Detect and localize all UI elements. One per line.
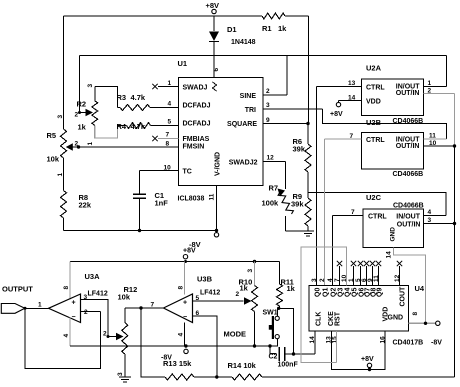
svg-text:10: 10 <box>429 140 437 147</box>
wire output to U3A <box>25 307 49 309</box>
potentiometer R2 1k <box>94 87 96 101</box>
svg-text:R7: R7 <box>269 184 279 193</box>
svg-text:14: 14 <box>386 251 393 259</box>
svg-text:Q2: Q2 <box>331 288 338 297</box>
svg-text:SWADJ: SWADJ <box>183 85 208 92</box>
svg-text:2: 2 <box>103 331 107 338</box>
svg-text:IN/OUT: IN/OUT <box>396 214 420 221</box>
svg-text:2: 2 <box>428 88 432 95</box>
U4 Q9 no-connect stub <box>378 266 380 286</box>
svg-text:CLK: CLK <box>316 312 323 326</box>
resistor R10 1k pot <box>254 262 256 286</box>
wire CKE to +8V/VDD <box>332 331 386 370</box>
wire SWADJ2 to R7 <box>263 161 286 163</box>
svg-text:7: 7 <box>350 133 354 140</box>
power +8V terminal <box>212 9 216 13</box>
svg-text:14: 14 <box>309 336 316 344</box>
svg-text:Q1: Q1 <box>323 288 330 297</box>
resistor R8 22k <box>61 191 67 219</box>
U4 COUT pin12 no-connect <box>399 266 401 286</box>
svg-text:15: 15 <box>332 336 339 344</box>
svg-text:1: 1 <box>428 80 432 87</box>
svg-text:SWADJ2: SWADJ2 <box>229 160 258 167</box>
svg-text:39k: 39k <box>291 200 304 209</box>
svg-text:CD4017B: CD4017B <box>393 340 424 347</box>
wire U2A ctrl from Q0 <box>317 86 362 88</box>
svg-text:2: 2 <box>75 112 79 119</box>
wire RST from Q4 (gray) <box>336 331 338 363</box>
wire U2B pin11 in (gray) <box>424 138 447 140</box>
U1 pin10 TC wire <box>140 170 179 172</box>
wire top rail right <box>285 15 309 17</box>
node rail from R2 wiper to U2A pin1 <box>80 55 447 57</box>
resistor R14 10k <box>217 376 232 378</box>
svg-text:CTRL: CTRL <box>366 85 385 92</box>
svg-text:3: 3 <box>87 84 94 88</box>
svg-text:LF412: LF412 <box>200 290 220 297</box>
svg-text:11: 11 <box>209 193 216 200</box>
U4 Q8 no-connect stub <box>372 266 374 286</box>
wire left rail lower <box>63 158 65 191</box>
U4 Q7 no-connect stub <box>366 266 368 286</box>
wire U3A feedback loop <box>25 308 101 368</box>
svg-text:10: 10 <box>164 165 172 172</box>
svg-text:MODE: MODE <box>224 330 247 339</box>
wire output bus lower <box>454 224 456 378</box>
svg-text:1nF: 1nF <box>155 199 169 208</box>
resistor R11 1k <box>279 262 281 285</box>
svg-text:CTRL: CTRL <box>366 137 385 144</box>
power -8V terminal U1 pin11 <box>216 186 218 233</box>
svg-text:R1: R1 <box>262 24 272 33</box>
svg-text:8: 8 <box>412 312 419 316</box>
svg-text:4.7k: 4.7k <box>131 93 146 102</box>
svg-text:U3B: U3B <box>197 275 213 284</box>
wire left rail upper <box>63 16 65 129</box>
U4 Q3 no-connect stub <box>339 266 341 286</box>
svg-text:U3A: U3A <box>85 272 101 281</box>
svg-text:4: 4 <box>168 101 172 108</box>
potentiometer R5 10k <box>61 129 67 158</box>
wire U3A pin8 riser <box>69 262 71 300</box>
wire R3 to U1 pin4 <box>118 107 121 109</box>
svg-text:3: 3 <box>428 217 432 224</box>
svg-text:2: 2 <box>266 88 270 95</box>
svg-text:14: 14 <box>348 95 356 102</box>
op-amp U3B LF412 triangle <box>164 294 193 323</box>
svg-text:12: 12 <box>394 274 401 282</box>
potentiometer R2 1k wiper arrow <box>86 109 94 117</box>
wire R1 drop to square node <box>308 16 310 124</box>
wire R5 wiper to FMSIN <box>73 146 179 148</box>
svg-text:11: 11 <box>429 133 436 140</box>
wire output bus mid <box>454 146 456 224</box>
wire R11 node to C2/CLK <box>279 308 294 354</box>
svg-text:R4: R4 <box>117 122 127 131</box>
wire U3A pin2 inverting <box>81 311 101 313</box>
svg-text:LF412: LF412 <box>88 291 108 298</box>
wire U2B ctrl from Q1 (gray) <box>325 138 362 140</box>
wire bottom bus <box>262 376 455 378</box>
svg-text:-8V: -8V <box>431 340 442 347</box>
svg-text:GND: GND <box>388 315 404 322</box>
wire mode rail corner to C2 <box>268 344 271 347</box>
svg-text:3: 3 <box>247 269 254 273</box>
svg-text:VDD: VDD <box>366 99 381 106</box>
svg-text:FMBIAS: FMBIAS <box>183 136 210 143</box>
svg-text:3: 3 <box>84 294 88 301</box>
wire U3B pin6 inverting <box>193 316 217 377</box>
svg-text:CTRL: CTRL <box>368 214 387 221</box>
svg-text:4: 4 <box>327 278 334 282</box>
wire U2B pin10 out <box>424 145 455 147</box>
svg-text:2: 2 <box>84 309 88 316</box>
U1 sweep glyph <box>213 82 217 91</box>
svg-text:SQUARE: SQUARE <box>227 121 257 128</box>
svg-text:+: + <box>183 300 187 307</box>
svg-text:OUT/IN: OUT/IN <box>397 222 421 229</box>
svg-text:CD4066B: CD4066B <box>393 203 424 210</box>
potentiometer R7 100k <box>278 192 293 214</box>
power +8V terminal U4 <box>367 363 371 367</box>
resistor R6 39k <box>307 124 309 145</box>
wire divider node to U2C in <box>308 193 446 216</box>
svg-text:OUT/IN: OUT/IN <box>396 90 420 97</box>
svg-text:R3: R3 <box>117 93 127 102</box>
svg-text:1: 1 <box>57 173 64 177</box>
svg-text:R14 10k: R14 10k <box>228 361 257 370</box>
wire U3B pin5 to R10 wiper <box>193 300 244 302</box>
wire U2C pin14 gnd to -8V (gray) <box>394 248 426 324</box>
svg-text:22k: 22k <box>79 201 92 210</box>
op-amp U3A LF412 triangle <box>49 294 81 323</box>
resistor R3 4.7k <box>120 105 150 111</box>
svg-text:ICL8038: ICL8038 <box>178 196 205 203</box>
svg-text:U2B: U2B <box>366 118 382 127</box>
capacitor C2 100nF <box>278 347 280 361</box>
svg-text:6: 6 <box>213 68 220 72</box>
svg-text:3: 3 <box>57 115 64 119</box>
svg-text:5: 5 <box>196 295 200 302</box>
svg-text:Q4: Q4 <box>345 288 352 297</box>
wire U2A pin1 to sine rail <box>424 86 447 88</box>
wire R13 drop <box>141 308 165 377</box>
svg-text:13: 13 <box>348 80 356 87</box>
U4 Q6 no-connect stub <box>360 266 362 286</box>
svg-text:1: 1 <box>87 142 94 146</box>
resistor R13 15k <box>165 374 194 380</box>
wire U3B pin4 drop (gray) <box>184 323 186 347</box>
svg-text:SW1: SW1 <box>263 310 278 317</box>
svg-text:U2C: U2C <box>366 193 382 202</box>
svg-text:V-/GND: V-/GND <box>215 152 222 176</box>
wire TRI out <box>263 108 323 110</box>
svg-text:+: + <box>72 300 76 307</box>
svg-text:+8V: +8V <box>330 111 343 118</box>
resistor R4 4.7k <box>127 123 151 129</box>
svg-text:7: 7 <box>166 132 170 139</box>
wire U3B pin8 riser (gray) <box>184 262 186 295</box>
wire C2 to CLK <box>285 353 316 355</box>
svg-text:1: 1 <box>168 80 172 87</box>
svg-text:COUT: COUT <box>400 286 407 307</box>
ground (R12) <box>119 376 131 378</box>
svg-text:6: 6 <box>196 310 200 317</box>
svg-text:4: 4 <box>177 333 184 337</box>
wire U3A pin3 to R12 wiper <box>81 300 117 337</box>
svg-text:3: 3 <box>266 102 270 109</box>
svg-text:CD4066B: CD4066B <box>393 118 424 125</box>
svg-text:4: 4 <box>428 209 432 216</box>
U1 pin7 FMBIAS no-connect (gray) <box>158 138 179 140</box>
svg-text:10k: 10k <box>118 293 131 302</box>
wire R4 to U1 pin5 <box>118 125 127 127</box>
wire SQUARE out <box>263 123 308 125</box>
svg-text:GND: GND <box>390 227 397 242</box>
svg-text:3: 3 <box>311 278 318 282</box>
wire R2 wiper riser <box>79 56 81 113</box>
wire U2C pin3 out <box>424 223 455 225</box>
svg-text:OUTPUT: OUTPUT <box>2 285 33 294</box>
svg-text:+8V: +8V <box>183 248 196 255</box>
svg-text:R13 15k: R13 15k <box>163 359 192 368</box>
switch IC U2A CD4066B box <box>362 79 424 116</box>
wire top rail left <box>64 15 263 17</box>
svg-text:7: 7 <box>151 302 155 309</box>
svg-text:C2: C2 <box>269 354 278 361</box>
potentiometer R12 10k <box>116 333 124 341</box>
svg-text:Q3: Q3 <box>338 288 345 297</box>
svg-text:1k: 1k <box>240 284 249 293</box>
svg-text:+8V: +8V <box>206 1 220 10</box>
resistor R1 1k <box>262 13 285 19</box>
U1 pin1 SWADJ no-connect <box>158 86 179 88</box>
wire R2 top to R3 <box>95 87 118 108</box>
capacitor C1 1nF <box>139 171 141 194</box>
svg-text:3: 3 <box>117 372 124 376</box>
svg-text:D1: D1 <box>227 25 237 34</box>
resistor R9 39k <box>305 198 311 226</box>
svg-text:U1: U1 <box>178 59 188 68</box>
svg-text:FMSIN: FMSIN <box>183 144 205 151</box>
svg-text:DCFADJ: DCFADJ <box>183 121 211 128</box>
svg-text:1k: 1k <box>78 123 87 132</box>
svg-text:R2: R2 <box>77 100 87 109</box>
svg-text:Q0: Q0 <box>315 288 322 297</box>
svg-text:4: 4 <box>63 334 70 338</box>
counter IC U4 CD4017B box <box>309 286 409 332</box>
svg-text:4.7k: 4.7k <box>131 122 146 131</box>
wire opamp +8V rail <box>70 261 280 263</box>
svg-text:TC: TC <box>183 169 192 176</box>
svg-text:CD4066B: CD4066B <box>393 171 424 178</box>
svg-text:RST: RST <box>335 311 342 326</box>
svg-text:+8V: +8V <box>361 356 374 363</box>
svg-text:5: 5 <box>168 119 172 126</box>
U4 Q5 no-connect stub <box>353 266 355 286</box>
svg-text:7: 7 <box>351 209 355 216</box>
power +8V terminal U2A VDD <box>336 102 340 106</box>
power +8V terminal opamps <box>183 255 187 259</box>
wire U3B pin7 to R12 top <box>125 307 164 309</box>
power -8V terminal U3B <box>184 344 187 347</box>
svg-text:39k: 39k <box>293 145 306 154</box>
svg-text:OUT/IN: OUT/IN <box>396 143 420 150</box>
svg-text:TRI: TRI <box>245 107 256 114</box>
svg-text:8: 8 <box>63 286 70 290</box>
svg-text:100k: 100k <box>262 199 280 208</box>
svg-text:DCFADJ: DCFADJ <box>183 103 211 110</box>
diode D1 1N4148 <box>213 16 215 31</box>
svg-text:−: − <box>183 314 187 321</box>
wire SINE out <box>263 94 287 96</box>
svg-text:1: 1 <box>38 302 42 309</box>
wire -8V mode rail <box>70 345 278 347</box>
wire U3A pin4 drop <box>69 318 71 347</box>
wire output bus right (gray) <box>454 94 456 147</box>
switch IC U2C CD4066B box <box>363 209 424 248</box>
svg-text:U4: U4 <box>415 284 425 293</box>
svg-text:Q9: Q9 <box>377 288 384 297</box>
svg-text:U2A: U2A <box>366 64 382 73</box>
connector OUTPUT <box>1 304 25 314</box>
svg-text:1k: 1k <box>287 284 296 293</box>
svg-text:−: − <box>72 314 76 321</box>
svg-text:8: 8 <box>166 141 170 148</box>
svg-text:2: 2 <box>319 278 326 282</box>
svg-text:Q5: Q5 <box>352 288 359 297</box>
svg-text:10k: 10k <box>47 155 60 164</box>
wire U2C ctrl from Q2 <box>333 215 364 217</box>
switch IC U2B CD4066B box <box>362 133 424 170</box>
svg-text:12: 12 <box>267 155 275 162</box>
svg-text:R5: R5 <box>47 131 57 140</box>
svg-text:1k: 1k <box>278 24 287 33</box>
op IC U1 ICL8038 box <box>179 78 264 186</box>
wire U2C pin4 in <box>424 215 447 217</box>
svg-text:SINE: SINE <box>240 93 257 100</box>
svg-text:1N4148: 1N4148 <box>231 39 256 46</box>
power -8V terminal U4 <box>436 321 440 325</box>
wire R2 bottom link (gray) <box>95 125 118 138</box>
svg-text:8: 8 <box>177 286 184 290</box>
wire Q4 to RST loop (gray) <box>301 247 347 363</box>
wire bottom rail of oscillator section <box>64 230 217 232</box>
ground (oscillator divider) <box>302 230 314 232</box>
wire U2A pin2 out (gray) <box>424 93 455 95</box>
svg-text:2: 2 <box>236 291 240 298</box>
svg-text:100nF: 100nF <box>278 362 299 369</box>
